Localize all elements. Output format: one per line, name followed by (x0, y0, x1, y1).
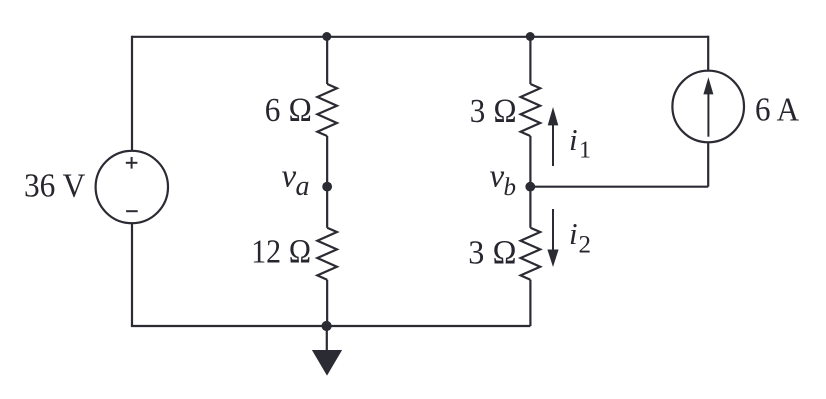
wire branch A middle (326, 136, 328, 228)
node vb dot (525, 182, 535, 192)
resistor R 3ohm top zigzag (521, 84, 541, 136)
wire branch B upper stub (529, 37, 531, 84)
node dot bottom (322, 321, 332, 331)
svg-text:b: b (504, 174, 517, 201)
wire current source top stub (707, 36, 709, 71)
svg-text:6 Ω: 6 Ω (265, 92, 313, 129)
current source arrow (703, 77, 713, 137)
voltage source VS 36V circle (96, 151, 168, 223)
node va dot (322, 182, 332, 192)
wire branch A lower (326, 280, 328, 326)
svg-text:36 V: 36 V (24, 168, 86, 205)
svg-text:v: v (282, 159, 297, 195)
svg-text:a: a (296, 171, 310, 202)
current arrow i2 (547, 209, 558, 267)
ground symbol (312, 326, 342, 376)
svg-text:2: 2 (579, 232, 592, 259)
svg-text:1: 1 (579, 138, 591, 164)
current source CS 6A circle (672, 71, 744, 143)
wire node vb horizontal (530, 186, 708, 188)
node dot top B (526, 32, 535, 41)
svg-text:i: i (569, 216, 578, 251)
svg-text:12 Ω: 12 Ω (251, 234, 311, 271)
svg-text:3 Ω: 3 Ω (468, 235, 517, 272)
current arrow i1 (548, 107, 559, 166)
wire left branch upper (131, 36, 133, 151)
svg-text:v: v (490, 159, 505, 195)
wire branch B lower (529, 280, 531, 326)
wire branch A upper stub (326, 37, 328, 84)
plus sign of voltage source (126, 157, 138, 169)
minus sign of voltage source (126, 210, 138, 212)
resistor R 3ohm bottom zigzag (521, 228, 541, 280)
wire current source bottom stub (707, 142, 709, 186)
wire left branch lower (131, 223, 133, 326)
svg-text:i: i (569, 122, 578, 157)
svg-text:3 Ω: 3 Ω (470, 93, 517, 130)
resistor R 6ohm zigzag (317, 84, 337, 136)
wire top rail (132, 36, 708, 38)
node dot top A (322, 32, 331, 41)
wire bottom rail (131, 325, 531, 327)
svg-text:6 A: 6 A (755, 92, 799, 129)
wire branch B middle (529, 136, 531, 228)
resistor R 12ohm zigzag (317, 228, 337, 280)
